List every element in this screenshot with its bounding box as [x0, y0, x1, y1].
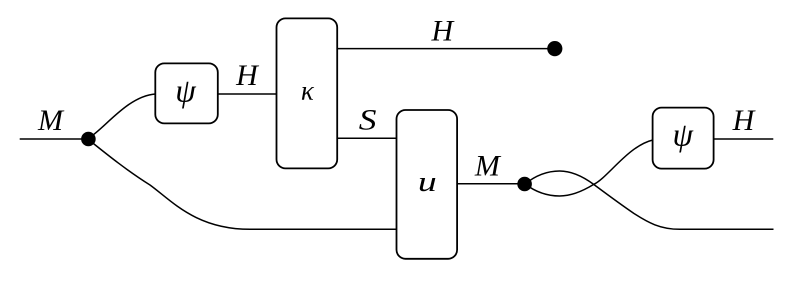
- svg-text:S: S: [359, 104, 377, 137]
- wire psi to kappa (H): [218, 93, 277, 95]
- wire M input: [20, 138, 82, 140]
- wire from copy dot up to psi box: [89, 94, 156, 138]
- wire lens top arc crossing down to bottom right rail: [525, 171, 774, 229]
- wire kappa bottom output S to u: [337, 137, 396, 139]
- wire u output M: [457, 183, 518, 185]
- svg-text:κ: κ: [301, 76, 315, 106]
- node copy dot (left): [81, 132, 96, 147]
- wire lens bottom arc crossing up into psi box (right): [525, 140, 653, 196]
- svg-text:H: H: [235, 59, 260, 92]
- svg-text:ψ: ψ: [672, 117, 693, 153]
- node discard dot (top): [547, 41, 562, 56]
- node copy dot (right): [517, 177, 532, 192]
- wire psi right output H: [714, 138, 774, 140]
- svg-text:H: H: [732, 104, 757, 137]
- svg-text:M: M: [37, 104, 65, 137]
- svg-text:u: u: [418, 166, 437, 198]
- box psi (right): [653, 108, 714, 169]
- box kappa: [277, 18, 338, 168]
- box u: [397, 110, 458, 259]
- svg-text:M: M: [474, 149, 502, 182]
- svg-text:ψ: ψ: [175, 74, 196, 110]
- wire kappa top output H: [337, 48, 549, 50]
- wire from copy dot down to bottom rail into u box: [89, 140, 397, 229]
- box psi (left): [155, 63, 218, 123]
- svg-text:H: H: [430, 14, 455, 47]
